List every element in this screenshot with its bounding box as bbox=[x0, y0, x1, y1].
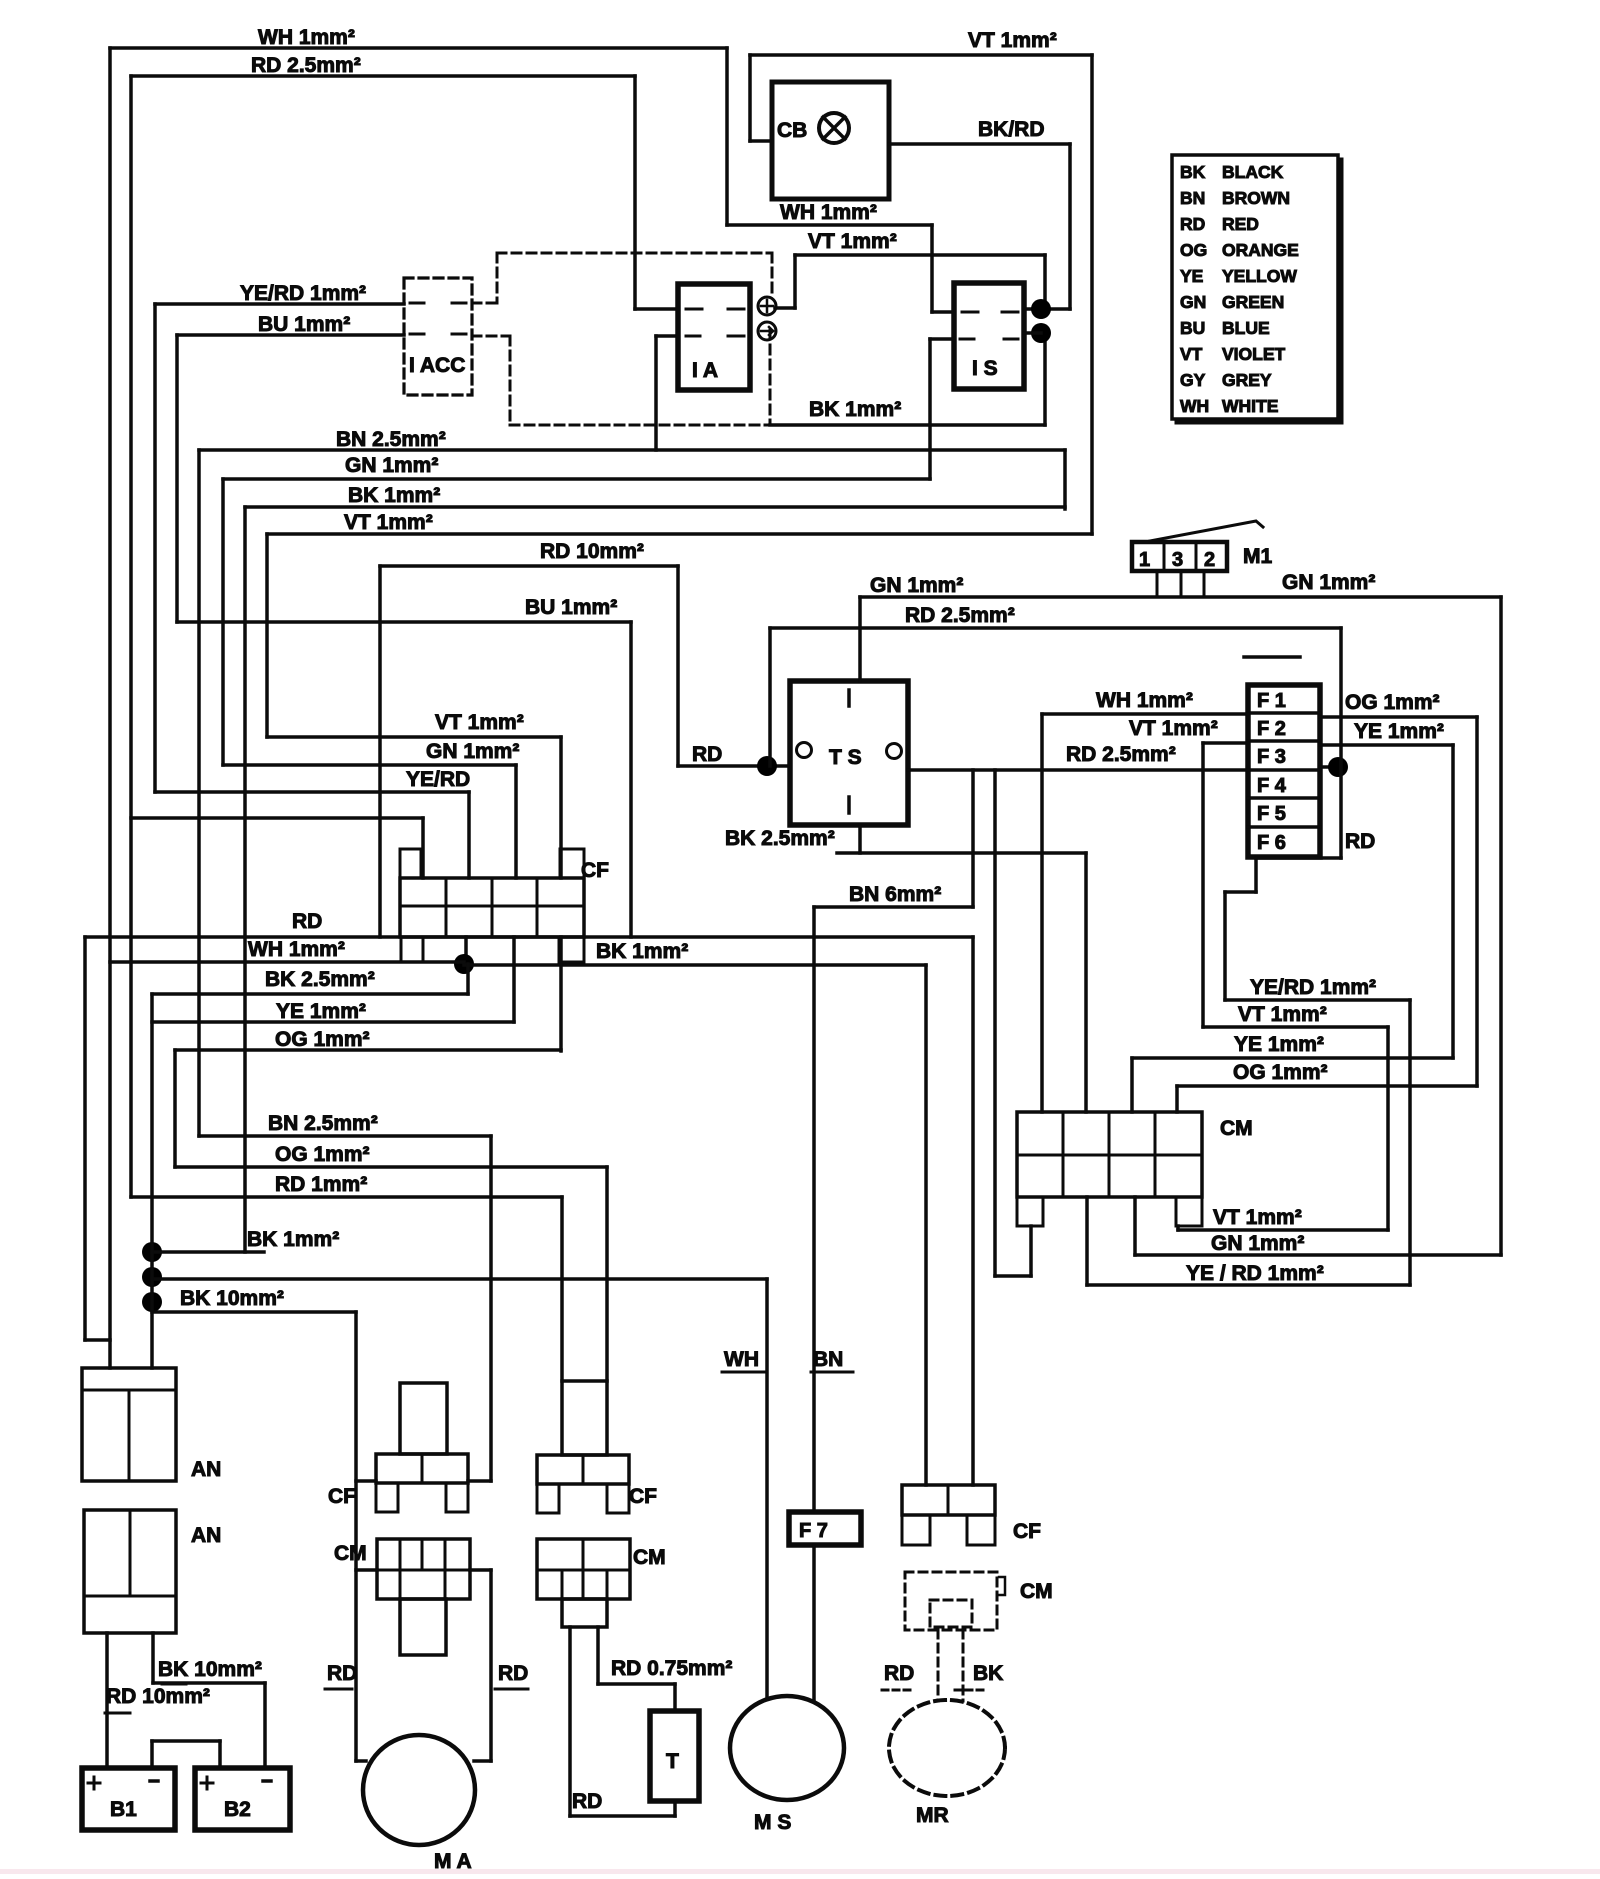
B2 minus sign bbox=[263, 1779, 271, 1783]
motor switch M1 box bbox=[1132, 542, 1227, 571]
CF-MA left leg bbox=[376, 1483, 398, 1512]
I ACC internal pin dashes bbox=[410, 302, 424, 305]
wire VT 1mm2 descent to CF bbox=[267, 735, 561, 739]
wire GN 1mm2: to IS lower-left pin bbox=[223, 477, 930, 481]
svg-text:RD: RD bbox=[327, 1662, 357, 1685]
underline WH MS bbox=[722, 1371, 764, 1374]
svg-text:BK 1mm²: BK 1mm² bbox=[247, 1228, 339, 1251]
svg-text:RD 2.5mm²: RD 2.5mm² bbox=[905, 604, 1015, 627]
IA plus terminal circle bbox=[758, 297, 776, 315]
dashed underline RD MR bbox=[882, 1689, 914, 1692]
wire GN 1mm2 from TS top to M1 and right side bbox=[858, 597, 862, 681]
svg-text:BN: BN bbox=[813, 1348, 843, 1371]
TS left junction dot bbox=[757, 756, 777, 776]
connector CF-T body bbox=[537, 1455, 629, 1484]
wire RD 1mm2 down to CF-T bbox=[560, 1197, 564, 1381]
svg-text:F 7: F 7 bbox=[799, 1520, 828, 1542]
svg-text:BROWN: BROWN bbox=[1222, 188, 1290, 208]
svg-text:BU 1mm²: BU 1mm² bbox=[258, 313, 350, 336]
CF top-right ear bbox=[560, 849, 584, 878]
svg-text:T: T bbox=[666, 1750, 679, 1773]
svg-text:GN 1mm²: GN 1mm² bbox=[1282, 571, 1375, 594]
wire RD from battery to TS branch bbox=[85, 935, 973, 939]
svg-text:BN 6mm²: BN 6mm² bbox=[849, 883, 941, 906]
svg-text:GN 1mm²: GN 1mm² bbox=[345, 454, 438, 477]
fuse box divider 3 bbox=[1248, 768, 1320, 772]
wire CM-MA left link bbox=[356, 1568, 377, 1572]
wire branch down to BN6 junction bbox=[971, 770, 975, 907]
svg-text:1: 1 bbox=[1139, 549, 1150, 571]
CF-MR right leg bbox=[967, 1515, 995, 1545]
scan artifact strip bottom bbox=[0, 1869, 1600, 1874]
wire WH 1mm2 to F2 and CM bbox=[1042, 712, 1248, 716]
wire RD left into CF-MA bbox=[356, 1479, 376, 1483]
fuse box divider 5 bbox=[1248, 825, 1320, 829]
svg-text:B2: B2 bbox=[224, 1798, 251, 1821]
svg-text:BN: BN bbox=[1180, 188, 1205, 208]
wire BK 10mm2 AN to B2 bbox=[151, 1633, 155, 1683]
svg-text:VT 1mm²: VT 1mm² bbox=[1129, 717, 1218, 740]
svg-text:I ACC: I ACC bbox=[409, 354, 465, 377]
svg-text:CM: CM bbox=[334, 1542, 367, 1565]
fuse box divider 2 bbox=[1248, 739, 1320, 743]
junction dot 1 on left bundle bbox=[142, 1242, 162, 1262]
wire RD 2.5mm2 descent to CF ear bbox=[131, 816, 423, 820]
svg-text:VT 1mm²: VT 1mm² bbox=[1213, 1206, 1302, 1229]
svg-text:BK: BK bbox=[973, 1662, 1003, 1685]
svg-text:F 4: F 4 bbox=[1257, 775, 1287, 797]
wire BU 1mm2 lower run bbox=[177, 620, 631, 624]
svg-text:WH: WH bbox=[724, 1348, 759, 1371]
ignition switch IS box bbox=[954, 283, 1024, 389]
svg-text:CF: CF bbox=[328, 1485, 356, 1508]
wire RD into MA left bbox=[356, 1759, 366, 1763]
wire drop to CF-MR right pin bbox=[971, 937, 975, 1485]
svg-text:BU: BU bbox=[1180, 318, 1205, 338]
svg-text:BK 1mm²: BK 1mm² bbox=[596, 940, 688, 963]
svg-text:CF: CF bbox=[581, 859, 609, 882]
svg-text:BN 2.5mm²: BN 2.5mm² bbox=[336, 428, 446, 451]
connector CM-MR dashed outer bbox=[905, 1572, 997, 1630]
M1 pin stubs bbox=[1156, 571, 1159, 597]
CF-T left leg bbox=[537, 1484, 559, 1513]
svg-text:YE/RD 1mm²: YE/RD 1mm² bbox=[1250, 976, 1376, 999]
underline BK 10mm2 bbox=[162, 1683, 186, 1686]
CF-T right leg bbox=[607, 1484, 629, 1513]
CB lamp symbol bbox=[819, 113, 849, 143]
wire OG 1mm2 from F2 right to CM loop bbox=[1320, 715, 1477, 719]
dashed wire BK 1mm2 from I ACC to IA lower pin bbox=[472, 335, 510, 338]
legend color-code box bbox=[1172, 155, 1338, 419]
wire GN 1mm2 right drop to CM bbox=[1499, 597, 1503, 1255]
svg-text:VIOLET: VIOLET bbox=[1222, 344, 1286, 364]
wire YE/RD 1mm2 loop to CM bbox=[1225, 998, 1410, 1002]
svg-text:YE / RD 1mm²: YE / RD 1mm² bbox=[1186, 1262, 1324, 1285]
svg-text:RD: RD bbox=[1345, 830, 1375, 853]
ignition switch IA box bbox=[678, 284, 750, 390]
svg-text:RD: RD bbox=[498, 1662, 528, 1685]
svg-text:BLUE: BLUE bbox=[1222, 318, 1270, 338]
svg-text:BK 2.5mm²: BK 2.5mm² bbox=[265, 968, 375, 991]
svg-text:OG 1mm²: OG 1mm² bbox=[275, 1143, 370, 1166]
dashed wire BK to MR bbox=[962, 1630, 965, 1701]
svg-text:BK 10mm²: BK 10mm² bbox=[180, 1287, 284, 1310]
wire RD 0.75mm2 to T box top bbox=[596, 1627, 600, 1684]
svg-text:YELLOW: YELLOW bbox=[1222, 266, 1297, 286]
svg-text:RD: RD bbox=[572, 1790, 602, 1813]
underline BN MS bbox=[811, 1371, 853, 1374]
svg-text:RD 10mm²: RD 10mm² bbox=[106, 1685, 210, 1708]
CF-MA right leg bbox=[446, 1483, 468, 1512]
starter switch TS box bbox=[790, 681, 908, 825]
wire TS right pin RD 2.5mm2 to fuse box bbox=[908, 768, 1248, 772]
switch I ACC dashed box bbox=[404, 278, 472, 395]
wire branch down to CM left tab bbox=[993, 770, 997, 1276]
svg-text:YE/RD: YE/RD bbox=[406, 768, 470, 791]
svg-text:B1: B1 bbox=[110, 1798, 137, 1821]
svg-text:VT 1mm²: VT 1mm² bbox=[435, 711, 524, 734]
svg-text:RD: RD bbox=[292, 910, 322, 933]
svg-text:BK 10mm²: BK 10mm² bbox=[158, 1658, 262, 1681]
fuse F3 right pin junction dot bbox=[1320, 765, 1341, 769]
CM left bottom tab bbox=[1017, 1197, 1043, 1226]
underline RD MA-right bbox=[495, 1688, 528, 1691]
svg-text:RD 10mm²: RD 10mm² bbox=[540, 540, 644, 563]
svg-text:GREEN: GREEN bbox=[1222, 292, 1284, 312]
motor MR dashed circle bbox=[889, 1700, 1005, 1796]
wire RD from F column down to YE/RD loop bbox=[1339, 628, 1343, 858]
svg-text:RD 0.75mm²: RD 0.75mm² bbox=[611, 1657, 732, 1680]
svg-text:CF: CF bbox=[1013, 1520, 1041, 1543]
legend box drop shadow bbox=[1339, 160, 1344, 422]
svg-text:CM: CM bbox=[1220, 1117, 1253, 1140]
svg-text:YE 1mm²: YE 1mm² bbox=[1354, 720, 1444, 743]
svg-text:M1: M1 bbox=[1243, 545, 1272, 568]
CM right bottom tab bbox=[1176, 1197, 1202, 1226]
wire YE 1mm2 from CF cell3 bbox=[512, 937, 516, 1022]
wire BK 1mm2 right from CF dot bbox=[464, 963, 926, 967]
wire BK 1mm2: mid run bbox=[245, 505, 1065, 509]
wire RD 1mm2 lower run bbox=[131, 1195, 562, 1199]
svg-text:BK 2.5mm²: BK 2.5mm² bbox=[725, 827, 835, 850]
junction dot below CF bbox=[454, 954, 474, 974]
connector CF-MR body bbox=[902, 1485, 995, 1515]
connector CF-T plug bbox=[562, 1381, 607, 1455]
motor MA circle bbox=[363, 1735, 475, 1845]
wire BN 2.5mm2 lower run bbox=[199, 1134, 491, 1138]
svg-text:WHITE: WHITE bbox=[1222, 396, 1278, 416]
fuse F7 box bbox=[789, 1512, 861, 1545]
svg-text:M S: M S bbox=[754, 1811, 791, 1834]
svg-text:WH 1mm²: WH 1mm² bbox=[248, 938, 345, 961]
svg-text:GN 1mm²: GN 1mm² bbox=[426, 740, 519, 763]
IS right junction dot upper bbox=[1031, 299, 1051, 319]
svg-text:RD 2.5mm²: RD 2.5mm² bbox=[1066, 743, 1176, 766]
battery B1 bbox=[82, 1768, 175, 1830]
TS inner contacts bbox=[797, 743, 812, 758]
CF top-left ear bbox=[400, 849, 421, 878]
connector CF main grid bbox=[400, 878, 584, 937]
svg-text:YE/RD 1mm²: YE/RD 1mm² bbox=[240, 282, 366, 305]
junction dot 3 on left bundle bbox=[142, 1292, 162, 1312]
svg-text:RD: RD bbox=[884, 1662, 914, 1685]
wire RD to T box bottom bbox=[568, 1627, 572, 1816]
svg-text:CB: CB bbox=[777, 119, 807, 142]
svg-text:CM: CM bbox=[633, 1546, 666, 1569]
wire BN 2.5mm2: IA lower pin run bbox=[656, 334, 678, 338]
svg-text:VT 1mm²: VT 1mm² bbox=[968, 29, 1057, 52]
wire BN 2.5mm2 into CF-MA right bbox=[489, 1136, 493, 1481]
svg-text:YE: YE bbox=[1180, 266, 1203, 286]
wire BK 2.5mm2 from dot down-left bbox=[466, 964, 470, 994]
wire WH 1mm2 top-left: top run and left drop bbox=[110, 46, 727, 50]
svg-text:GN 1mm²: GN 1mm² bbox=[1211, 1232, 1304, 1255]
svg-text:CM: CM bbox=[1020, 1580, 1053, 1603]
svg-text:T S: T S bbox=[829, 746, 862, 769]
svg-text:F 5: F 5 bbox=[1257, 803, 1286, 825]
IA lower terminal circle bbox=[758, 322, 776, 340]
svg-text:BN 2.5mm²: BN 2.5mm² bbox=[268, 1112, 378, 1135]
IS lower dot stub bbox=[1024, 331, 1041, 335]
fuse box divider 4 bbox=[1248, 796, 1320, 800]
IS internal pin dashes bbox=[962, 311, 978, 314]
svg-text:OG 1mm²: OG 1mm² bbox=[275, 1028, 370, 1051]
svg-text:GY: GY bbox=[1180, 370, 1206, 390]
motor MS circle bbox=[730, 1696, 844, 1800]
wire RD 2.5mm2: top run, drop to IA pin, left drop bbox=[131, 74, 635, 78]
wire YE/RD 1mm2 to I ACC bbox=[155, 302, 404, 306]
dash mark above fuse box bbox=[1244, 655, 1300, 659]
connector CM-MA plug below bbox=[400, 1599, 446, 1655]
CM-MR bracket mark bbox=[999, 1577, 1005, 1595]
underline RD 10mm2 bbox=[105, 1712, 130, 1715]
wire BK 2.5mm2 from TS bottom to CM bbox=[858, 825, 862, 853]
svg-text:F 2: F 2 bbox=[1257, 718, 1286, 740]
svg-text:VT: VT bbox=[1180, 344, 1203, 364]
svg-text:2: 2 bbox=[1204, 549, 1215, 571]
wire from dot2 to MS WH lead bbox=[152, 1277, 767, 1281]
connector AN lower bbox=[84, 1510, 176, 1633]
wire VT 1mm2: long run to right vertical bbox=[267, 532, 1092, 536]
connector AN upper bbox=[82, 1368, 176, 1481]
svg-text:3: 3 bbox=[1172, 549, 1183, 571]
CF bottom-right tab bbox=[559, 937, 584, 962]
svg-text:VT 1mm²: VT 1mm² bbox=[808, 230, 897, 253]
svg-text:GN 1mm²: GN 1mm² bbox=[870, 574, 963, 597]
wire CF cell2 to junction dot bbox=[464, 937, 468, 964]
IA internal pin dashes bbox=[686, 308, 702, 311]
svg-text:RD: RD bbox=[1180, 214, 1205, 234]
wire B1-B2 link bbox=[150, 1741, 154, 1768]
svg-text:YE 1mm²: YE 1mm² bbox=[1234, 1033, 1324, 1056]
svg-text:RED: RED bbox=[1222, 214, 1259, 234]
B1 minus sign bbox=[150, 1779, 158, 1783]
B2 plus sign bbox=[201, 1782, 213, 1785]
svg-text:WH 1mm²: WH 1mm² bbox=[780, 201, 877, 224]
wire RD 10mm2: bridge run bbox=[380, 564, 678, 568]
svg-text:F 6: F 6 bbox=[1257, 832, 1286, 854]
connector CF-MA plug bbox=[400, 1383, 447, 1454]
wire YE 1mm2 from F3 right to CM loop bbox=[1320, 743, 1453, 747]
svg-text:BK 1mm²: BK 1mm² bbox=[809, 398, 901, 421]
svg-text:AN: AN bbox=[191, 1524, 221, 1547]
svg-text:MR: MR bbox=[916, 1804, 949, 1827]
wire BK 1mm2 stub from dot1 bbox=[152, 1250, 264, 1254]
svg-text:ORANGE: ORANGE bbox=[1222, 240, 1299, 260]
IS right junction dot lower bbox=[1031, 323, 1051, 343]
wire BU 1mm2 to I ACC bbox=[177, 333, 404, 337]
wire AN lower to battery B1 bbox=[105, 1633, 109, 1768]
svg-text:WH 1mm²: WH 1mm² bbox=[1096, 689, 1193, 712]
wire WH 1mm2: drop at x727 to CB area run bbox=[725, 48, 729, 225]
svg-text:F 3: F 3 bbox=[1257, 746, 1286, 768]
wire OG 1mm2 from CF cell4 bbox=[559, 937, 563, 1051]
svg-text:YE 1mm²: YE 1mm² bbox=[276, 1000, 366, 1023]
connector CM-T plug below bbox=[562, 1599, 607, 1627]
resistor T box bbox=[650, 1711, 699, 1801]
wire BK/RD from CB to IS dot bbox=[889, 142, 1070, 146]
underline RD MA-left bbox=[325, 1688, 352, 1691]
circuit breaker CB box bbox=[772, 82, 889, 199]
svg-text:RD 2.5mm²: RD 2.5mm² bbox=[251, 54, 361, 77]
wire GN 1mm2 descent to CF bbox=[223, 763, 516, 767]
CF bottom-left tab bbox=[401, 937, 423, 962]
svg-text:BK: BK bbox=[1180, 162, 1206, 182]
wire RD from RD10mm2 to TS left dot bbox=[678, 764, 790, 768]
connector CM main grid bbox=[1017, 1112, 1202, 1197]
fuse box divider 1 bbox=[1248, 711, 1320, 715]
svg-text:AN: AN bbox=[191, 1458, 221, 1481]
svg-text:I S: I S bbox=[972, 357, 998, 380]
svg-text:BK/RD: BK/RD bbox=[978, 118, 1045, 141]
junction dot 2 on left bundle bbox=[142, 1267, 162, 1287]
connector CF-MA body bbox=[376, 1454, 468, 1483]
wire BK 1mm2 from IA lower terminal to IS lower dot bbox=[770, 423, 1045, 427]
M1 lever bbox=[1150, 521, 1263, 541]
CF-MR left leg bbox=[902, 1515, 930, 1545]
wire BK 10mm2 from dot3 to MA column bbox=[152, 1310, 356, 1314]
wire OG 1mm2 lower run bbox=[175, 1165, 607, 1169]
wire YE/RD descent to CF bbox=[155, 790, 469, 794]
wire RD 2.5mm2 from TS dot up and right to fuse box column bbox=[768, 628, 772, 766]
dashed wire VT 1mm2 from I ACC to IA+ bbox=[497, 252, 772, 255]
svg-text:GN: GN bbox=[1180, 292, 1206, 312]
svg-text:CF: CF bbox=[629, 1485, 657, 1508]
wire BK drop to CF-MR left pin bbox=[924, 965, 928, 1485]
wire BN from F7 to MS bbox=[812, 1545, 816, 1700]
svg-text:BLACK: BLACK bbox=[1222, 162, 1284, 182]
svg-text:VT 1mm²: VT 1mm² bbox=[344, 511, 433, 534]
dashed wire RD to MR bbox=[937, 1630, 940, 1701]
svg-text:OG 1mm²: OG 1mm² bbox=[1345, 691, 1440, 714]
svg-text:VT 1mm²: VT 1mm² bbox=[1238, 1003, 1327, 1026]
fuse box F1-F6 bbox=[1248, 685, 1320, 857]
svg-text:RD: RD bbox=[692, 743, 722, 766]
B1 plus sign bbox=[88, 1782, 100, 1785]
svg-text:OG 1mm²: OG 1mm² bbox=[1233, 1061, 1328, 1084]
svg-text:OG: OG bbox=[1180, 240, 1207, 260]
connector CM-MR dashed plug bbox=[930, 1600, 972, 1627]
svg-text:RD 1mm²: RD 1mm² bbox=[275, 1173, 367, 1196]
svg-text:WH 1mm²: WH 1mm² bbox=[258, 26, 355, 49]
svg-text:GREY: GREY bbox=[1222, 370, 1272, 390]
left bundle vertical to AN bbox=[150, 994, 154, 1368]
wire VT 1mm2 from IA+ to IS dot bbox=[795, 253, 1045, 257]
wire OG 1mm2 down to CF-T bbox=[605, 1167, 609, 1381]
wire VT 1mm2 to F3 and CM loop bbox=[1203, 741, 1248, 745]
wire CM-MA right to MA bbox=[470, 1568, 491, 1572]
wire WH 1mm2 left run to CF dot bbox=[110, 960, 464, 964]
wire BN 6mm2 to MS via F7 bbox=[814, 905, 973, 909]
connector CM-MA grid bbox=[377, 1539, 470, 1599]
svg-text:WH: WH bbox=[1180, 396, 1209, 416]
svg-text:F 1: F 1 bbox=[1257, 690, 1286, 712]
connector CM-T grid bbox=[537, 1539, 630, 1599]
wire VT 1mm2 top run to right side bbox=[750, 53, 1092, 57]
svg-text:BU 1mm²: BU 1mm² bbox=[525, 596, 617, 619]
dashed underline BK MR bbox=[955, 1689, 987, 1692]
battery B2 bbox=[195, 1768, 290, 1830]
svg-text:I A: I A bbox=[692, 359, 718, 382]
svg-text:BK 1mm²: BK 1mm² bbox=[348, 484, 440, 507]
